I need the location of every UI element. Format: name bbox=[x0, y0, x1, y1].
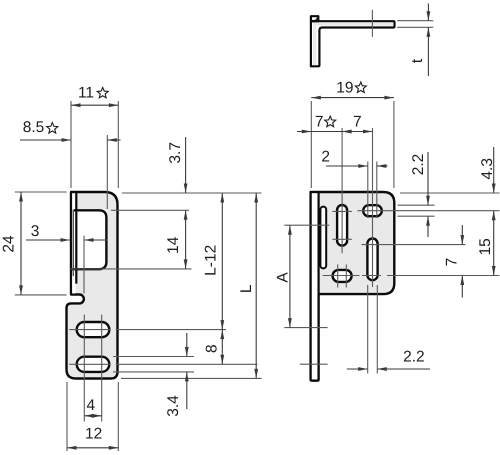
dimension 19 extension lines bbox=[311, 101, 394, 188]
dimension 7-right label bbox=[443, 258, 460, 267]
H2 / V2 bottom arc-center line bbox=[323, 275, 500, 277]
slot2-center alignment tick bbox=[300, 363, 328, 365]
V2 vertical centerline bbox=[372, 128, 374, 287]
dimension 2 label bbox=[321, 149, 330, 166]
dimension 24 extension lines bbox=[15, 192, 67, 295]
dimension 2 extension lines bbox=[368, 162, 377, 219]
dimension 2.2-bottom lines and arrows bbox=[347, 367, 430, 371]
dimension 8 label bbox=[204, 344, 221, 353]
front view vertical slot V2 bbox=[367, 239, 377, 281]
svg-text:19: 19 bbox=[336, 80, 353, 97]
dimension 11 label bbox=[78, 85, 108, 102]
side view fold line bbox=[75, 193, 77, 284]
top view centerline bbox=[371, 10, 373, 37]
dimension 19 label bbox=[336, 80, 366, 97]
dimension 7-star line and arrows bbox=[297, 130, 352, 134]
dimension 12 extension lines bbox=[67, 382, 118, 451]
dimension 2.2-bottom label bbox=[403, 349, 425, 366]
V1 arc-center ticks bbox=[332, 211, 351, 239]
dimension 12 label bbox=[85, 426, 102, 443]
svg-text:2.2: 2.2 bbox=[403, 349, 425, 366]
side view window cutout bbox=[70, 209, 107, 270]
dimension 3 label bbox=[31, 223, 40, 240]
dimension 3.4 lines and arrows bbox=[185, 333, 189, 409]
svg-text:2: 2 bbox=[321, 149, 330, 166]
dimension A label bbox=[274, 272, 291, 283]
front view vertical slot V1 bbox=[337, 205, 347, 246]
dimension 11 extension lines bbox=[71, 101, 118, 188]
dimension 2 lines and arrows bbox=[326, 164, 388, 168]
window top extension line bbox=[111, 209, 189, 211]
dimension 7-star label bbox=[315, 114, 336, 131]
dimension 24 label bbox=[1, 235, 18, 253]
dimension 7 label bbox=[353, 114, 362, 131]
dimension A extension lines bbox=[284, 225, 329, 327]
slot 2 horizontal centerline bbox=[69, 363, 257, 365]
front view outline bbox=[311, 192, 395, 381]
dimension 24 line and arrows bbox=[19, 192, 23, 295]
H1 edge extension lines bbox=[398, 205, 435, 216]
dimension 8.5 label bbox=[23, 119, 58, 136]
front view horizontal slot H1 bbox=[363, 205, 382, 216]
dimension 8.5 extension line bbox=[106, 135, 108, 209]
svg-text:4.3: 4.3 bbox=[479, 158, 496, 180]
svg-text:14: 14 bbox=[165, 236, 182, 254]
dimension A line and arrows bbox=[288, 225, 292, 327]
svg-text:8: 8 bbox=[204, 344, 221, 353]
side view slot 2 bbox=[77, 357, 110, 372]
svg-text:15: 15 bbox=[477, 238, 494, 255]
svg-text:3.4: 3.4 bbox=[165, 395, 182, 417]
svg-text:L-12: L-12 bbox=[203, 245, 220, 276]
V2 top arc-center line bbox=[362, 244, 466, 246]
slot 2 edge extension lines bbox=[113, 357, 194, 372]
dimension 4 label bbox=[86, 397, 95, 414]
dimension 19 line and arrows bbox=[311, 96, 394, 100]
dimension 3 extension line bbox=[83, 236, 85, 294]
dimension 8.5 lines and arrows bbox=[20, 138, 121, 142]
side view outline bbox=[67, 192, 118, 379]
svg-text:4: 4 bbox=[86, 397, 95, 414]
front top edge extension line bbox=[400, 192, 500, 194]
dimension 12 line and arrows bbox=[67, 446, 118, 450]
svg-text:t: t bbox=[409, 58, 426, 63]
dimension 3.7 line and arrow bbox=[184, 137, 188, 193]
dimension 15 line and arrows bbox=[492, 211, 496, 276]
front view horizontal slot H2 bbox=[333, 270, 352, 282]
svg-text:3.7: 3.7 bbox=[167, 142, 184, 164]
H1 centerline bbox=[358, 210, 500, 212]
dimension 14 line and arrows bbox=[184, 210, 188, 269]
V2 edge extension lines (bottom) bbox=[368, 285, 378, 374]
front view strip right edge / bend line bbox=[318, 193, 320, 294]
dimension t label bbox=[409, 58, 426, 63]
front view bend notch (window edge-on) bbox=[320, 207, 326, 269]
dimension 15 label bbox=[477, 238, 494, 255]
dimension 7-right lines and arrows bbox=[460, 225, 464, 298]
dimension L label bbox=[238, 284, 255, 293]
svg-text:7: 7 bbox=[443, 258, 460, 267]
V1 vertical centerline bbox=[341, 128, 343, 253]
dimension 4.3 label bbox=[479, 158, 496, 180]
dimension t lines and arrows bbox=[427, 4, 431, 77]
dimension 2.2 lines and arrows bbox=[426, 152, 430, 237]
svg-text:12: 12 bbox=[85, 426, 102, 443]
slot arc-center vertical lines bbox=[84, 315, 101, 422]
side view edge-on leg strip (white) bbox=[72, 193, 75, 293]
H2 arc-center ticks bbox=[338, 265, 347, 288]
side view slot 1 bbox=[77, 322, 110, 337]
dimension 7 line and arrows bbox=[342, 130, 372, 134]
side view bend inner line bbox=[72, 210, 74, 277]
svg-text:7: 7 bbox=[315, 114, 324, 131]
dimension L line and arrows bbox=[254, 193, 258, 378]
top edge right extension line bbox=[122, 192, 262, 194]
top view thickness shading stripes bbox=[313, 23, 393, 65]
dimension L-12 label bbox=[203, 245, 220, 276]
svg-text:7: 7 bbox=[353, 114, 362, 131]
dimension 2.2 label bbox=[410, 154, 427, 176]
slot 1 horizontal centerline bbox=[69, 329, 226, 331]
window bottom extension line bbox=[70, 268, 192, 270]
svg-text:11: 11 bbox=[78, 85, 94, 102]
dimension 4 line and arrows bbox=[84, 414, 101, 418]
dimension 3.4 label bbox=[165, 395, 182, 417]
svg-text:2.2: 2.2 bbox=[410, 154, 427, 176]
dimension 8 line and arrows bbox=[220, 330, 224, 365]
dimension t extension lines bbox=[397, 21, 433, 28]
svg-text:24: 24 bbox=[1, 235, 18, 253]
svg-text:3: 3 bbox=[31, 223, 40, 240]
dimension 3.7 label bbox=[167, 142, 184, 164]
dimension 4.3 line and arrow bbox=[492, 147, 496, 193]
dimension L-12 line and arrows bbox=[220, 193, 224, 330]
svg-text:L: L bbox=[238, 284, 255, 293]
dimension 3 lines and arrows bbox=[26, 238, 108, 242]
bottom edge right extension line bbox=[121, 377, 262, 379]
top view L-profile outline bbox=[311, 16, 395, 66]
svg-text:A: A bbox=[274, 272, 291, 283]
top view bend corner band (filled) bbox=[310, 17, 319, 22]
dimension 11 line and arrows bbox=[71, 103, 118, 107]
front view side-leg strip (edge-on) bbox=[312, 193, 317, 379]
dimension 14 label bbox=[165, 236, 182, 254]
svg-text:8.5: 8.5 bbox=[23, 119, 45, 136]
